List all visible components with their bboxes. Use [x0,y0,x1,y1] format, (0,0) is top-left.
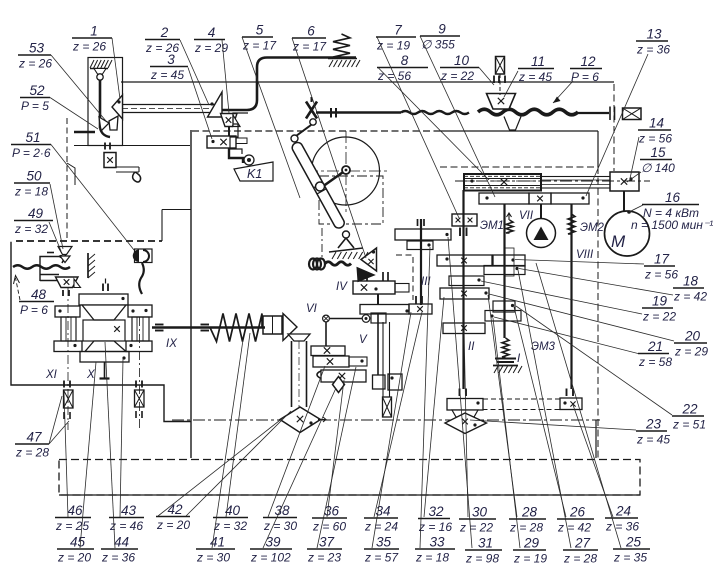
leader 4 [222,40,229,113]
K1 roller [244,155,254,165]
svg-text:30: 30 [472,505,488,520]
leader 52 [50,98,98,130]
shaft V upper [377,314,379,376]
bevel 6 z17 [357,268,375,282]
svg-text:6: 6 [307,24,315,39]
gear IV box [353,281,395,294]
shaft coupling mark [330,108,332,118]
leader 42b [158,417,284,516]
svg-text:49: 49 [28,206,44,221]
label 14 z=56 [638,129,671,131]
svg-text:z = 28: z = 28 [563,552,597,566]
gear bD [484,266,525,275]
svg-text:z = 29: z = 29 [674,345,708,359]
svg-text:47: 47 [26,430,42,445]
bevel 49 pair [58,247,72,255]
svg-text:z = 36: z = 36 [605,520,639,534]
svg-text:23: 23 [645,417,662,432]
gear bH [485,311,521,322]
svg-text:IV: IV [336,281,348,293]
leader 26 [514,307,566,517]
svg-text:18: 18 [683,274,699,289]
leader 29 [493,318,520,548]
svg-text:17: 17 [654,252,670,267]
leader 7 [377,37,459,218]
svg-text:VI: VI [306,303,318,315]
svg-text:z = 30: z = 30 [196,551,230,565]
svg-text:z = 98: z = 98 [465,552,499,566]
svg-text:35: 35 [376,535,392,550]
gear 4 shaft [228,127,230,136]
worm wheel mate outline [504,117,521,131]
leader 16 [629,205,643,212]
label 53 z=26 [18,54,51,56]
svg-text:11: 11 [531,54,545,69]
svg-text:45: 45 [70,535,86,550]
svg-text:z = 56: z = 56 [644,268,678,282]
apron right gearbox [128,305,152,317]
worm coil section [478,109,578,115]
shaft II bottom box [447,399,483,411]
apron top plate [79,294,128,305]
svg-text:z = 36: z = 36 [101,551,135,565]
leader 2 [180,40,209,105]
belt housing hidden line [613,84,615,171]
shaft I coupling bars [495,358,516,360]
label 1 z=26 [72,37,112,39]
shaft V crossbox [383,397,392,417]
cylinder lower pin [343,231,350,238]
svg-text:z = 22: z = 22 [459,521,493,535]
bevel 48 [56,277,79,288]
svg-text:II: II [468,341,475,353]
leader 28 [488,295,517,517]
svg-text:z = 22: z = 22 [440,69,474,83]
gear V1 box [311,346,345,356]
cylinder capsule [290,141,346,230]
clutch EM1 box [452,214,477,226]
svg-text:33: 33 [429,535,445,550]
VI down shaft [325,322,327,346]
gear 4 bevel [221,114,238,127]
label 13 z=36 [636,40,668,42]
leader 46 [64,392,68,517]
label 40 z=32 [213,517,248,519]
svg-text:27: 27 [574,536,591,551]
leader 34 [374,312,422,517]
apron left lower box [54,341,82,352]
shaft I line [503,204,505,338]
svg-text:z = 51: z = 51 [672,418,706,432]
K1 flag [234,162,273,181]
svg-text:z = 32: z = 32 [213,519,247,533]
svg-text:44: 44 [114,535,129,550]
label 38 z=30 [263,517,297,519]
label 41 z=30 [196,548,235,550]
svg-text:24: 24 [615,504,631,519]
gear V5 box [388,374,402,390]
apron upper funnel [82,305,126,320]
label 12 P=6 [570,68,602,70]
flexible shaft wavy [401,111,469,114]
leader 49 [49,222,61,251]
spring support hatch [328,58,357,60]
torsion coil [309,259,317,270]
svg-text:z = 42: z = 42 [673,290,707,304]
svg-text:z = 16: z = 16 [418,520,452,534]
svg-text:8: 8 [401,53,409,68]
feedbox step vertical [161,210,163,242]
svg-text:z = 28: z = 28 [15,446,49,460]
shaft IX [152,326,265,328]
gear V4 box [373,375,386,389]
label 36 z=60 [312,517,347,519]
label 33 z=18 [415,548,455,550]
svg-text:29: 29 [523,536,540,551]
svg-text:21: 21 [647,339,663,354]
gear row left [479,193,529,204]
svg-text:5: 5 [256,23,264,38]
svg-text:n = 1500 мин⁻¹: n = 1500 мин⁻¹ [631,218,713,232]
svg-text:51: 51 [25,130,40,145]
svg-text:z = 18: z = 18 [14,185,48,199]
leader 9 [420,36,495,197]
label 44 z=36 [101,548,138,550]
svg-text:III: III [421,276,431,288]
svg-text:z = 35: z = 35 [613,551,647,565]
svg-text:VII: VII [519,210,534,222]
disc horizontal axis [306,170,387,172]
label 39 z=102 [250,548,292,550]
label 26 z=42 [557,518,594,520]
gear b2 [493,255,525,266]
dashed coupling band [483,399,560,410]
leader 24 [573,405,613,517]
svg-text:z = 17: z = 17 [242,39,277,53]
label 43 z=46 [109,517,144,519]
label 19 z=22 [642,307,673,309]
selector rod [99,80,102,128]
worm wheel 11 [487,94,516,110]
svg-text:K1: K1 [247,167,262,181]
left col ticks [63,381,65,388]
drive shaft [316,111,401,114]
apron right lower box [126,341,152,352]
leader 10 [479,68,494,86]
gearbox right wall solid [597,131,599,167]
label 49 z=32 [14,220,53,222]
label 5 z=17 [242,36,273,38]
crank slider hidden box [319,176,383,224]
link bar [296,125,311,136]
leader 3 [188,68,212,140]
svg-text:z = 28: z = 28 [509,521,543,535]
oil drop [133,172,141,182]
label 16 motor data [642,204,699,206]
leader 13 [586,54,648,196]
bevel 5 z17 [361,248,377,271]
leader 15 [627,172,641,182]
dashed enclosure corner [396,255,413,300]
selector gear box [104,153,116,168]
label 37 z=23 [307,548,342,550]
gear b1 z [437,255,492,266]
leader 1 [112,38,120,99]
shaft VIII bottom coupling [566,389,568,397]
leader 35 [372,312,411,548]
svg-text:z = 42: z = 42 [557,521,591,535]
svg-text:20: 20 [684,329,701,344]
leader 38 [268,366,325,517]
lead screw [122,104,215,106]
apron worm housing [83,320,125,341]
svg-text:VIII: VIII [576,249,594,261]
base plate [59,460,640,496]
gear III top box [395,229,451,240]
leader 8 [378,68,489,181]
svg-text:53: 53 [29,41,45,56]
shaft IV lower stub [377,294,379,305]
worm end coupling [609,107,611,121]
svg-text:z = 26: z = 26 [18,57,52,71]
leader 39 [263,388,336,548]
leader 47b [49,421,69,444]
shaft X2 axis [139,317,141,430]
svg-text:z = 45: z = 45 [518,70,552,84]
gear bF [440,288,489,299]
headstock bottom line [74,145,190,147]
leader 22 [516,306,672,415]
VI link line [330,318,362,320]
apron top ticks [102,284,104,292]
gear V3 box [321,370,366,382]
big gear block z56 [464,174,541,191]
shaft VIII line [570,204,572,389]
svg-text:52: 52 [29,83,45,98]
svg-text:z = 56: z = 56 [638,132,672,146]
bearing box 13 [623,108,642,120]
svg-text:9: 9 [438,22,446,37]
feed shaft bend outline [67,163,75,185]
label 17 z=56 [644,265,675,267]
cylinder anchor [338,238,354,248]
svg-text:z = 26: z = 26 [72,40,106,54]
motor stem [623,191,625,212]
drum encoder [135,249,153,263]
leader 53 [51,55,106,121]
gear cluster hidden top [440,166,598,168]
motor circle [605,211,650,256]
svg-text:z = 30: z = 30 [263,519,297,533]
shaft 48 coupling [62,290,64,296]
gear bG [493,301,515,312]
apron left rails [61,317,76,341]
shaft IV vertical [366,272,368,281]
gear 10 hidden shaft [499,74,501,95]
headstock housing box [88,58,123,146]
clutch box IX [263,316,282,334]
leader 5 [242,37,300,198]
leader 33 [420,247,430,548]
wall with hatch [87,253,89,278]
selector step bar [116,166,139,168]
shaft II coupling [459,228,461,237]
left lower ticks [63,412,65,419]
gearbox top solid line [440,130,598,132]
claw tick [47,252,54,254]
label 32 z=16 [418,518,450,520]
kite arrow [318,417,326,422]
shaft II kite bevel [445,413,487,434]
gear 3 box [207,136,236,148]
leader 25 [536,263,621,548]
feed rod arrow [16,278,21,300]
bevel IX right [283,314,297,341]
svg-text:z = 32: z = 32 [14,222,48,236]
label 51 P=2.6 [11,144,51,146]
gear bI [443,323,485,334]
leader 47a [49,396,62,444]
svg-text:z = 45: z = 45 [150,68,184,82]
svg-text:16: 16 [665,190,681,205]
label 22 z=51 [672,415,704,417]
svg-text:z = 23: z = 23 [307,551,341,565]
label 21 z=58 [638,353,669,355]
label 48 P=6 [19,301,54,303]
leader 42 [186,411,291,516]
K1 pipe [229,148,243,163]
right col ticks [135,381,137,388]
rocker hidden axis [321,228,323,258]
VI side box [371,313,386,323]
svg-text:42: 42 [167,502,183,517]
svg-text:25: 25 [625,535,642,550]
column bottom right edge [595,420,597,458]
leader 21 [494,317,638,354]
label 24 z=36 [605,517,638,519]
apron left gearbox [55,306,80,317]
cam staircase [230,113,248,154]
svg-text:z = 20: z = 20 [57,551,91,565]
leader 31 [448,237,472,548]
svg-text:z = 17: z = 17 [292,40,327,54]
pump circle [527,219,556,248]
leader 17 [515,260,644,265]
gear III bottom left box [360,305,409,315]
half nut bracket [40,257,65,282]
label 31 z=98 [465,549,502,551]
svg-text:z = 36: z = 36 [636,43,670,57]
leader 44 [105,342,115,548]
svg-text:z = 20: z = 20 [156,518,190,532]
svg-text:50: 50 [26,169,42,184]
svg-text:32: 32 [428,504,444,519]
label 6 z=17 [292,37,326,39]
svg-text:IX: IX [166,338,178,350]
link pin circle [310,119,316,125]
label 23 z=45 [636,430,667,432]
worm shaft right [578,112,609,114]
headstock ceiling hatch [90,68,108,70]
feedbox hidden top line [16,240,162,242]
shaft V lines [382,322,384,397]
gear V2 ext [349,357,367,366]
upper pulley axis [455,180,650,182]
spindle stub thick [74,131,95,134]
selector coupling ticks [104,143,106,150]
label 11 z=45 [518,68,554,70]
svg-text:z = 56: z = 56 [377,69,411,83]
shaft VIII bottom box [560,398,582,410]
column left wall [190,130,192,458]
label 4 z=29 [194,39,225,41]
svg-text:13: 13 [646,27,662,42]
wide vertical shaft [291,341,293,407]
svg-text:ЭМ1: ЭМ1 [480,220,504,232]
leader 6 [292,38,366,258]
label 2 z=26 [145,39,180,41]
shaft III line [420,219,422,305]
leader 11 [504,71,518,97]
svg-text:P = 2·6: P = 2·6 [12,146,51,160]
svg-text:3: 3 [167,52,175,67]
leader 14 [630,137,639,179]
lower centre axis [172,419,600,421]
svg-text:z = 58: z = 58 [638,355,672,369]
shaft I spring [502,338,509,357]
gear III second box [407,241,433,250]
right crossbox [135,390,145,407]
gear V2 box [313,356,349,367]
shaft II line [462,190,464,389]
drum wavy down [139,263,144,294]
label 25 z=35 [613,548,650,550]
svg-text:∅ 140: ∅ 140 [641,161,675,175]
feed rod wavy left [13,265,70,269]
svg-text:46: 46 [67,503,83,518]
svg-text:1: 1 [90,24,98,39]
svg-text:26: 26 [569,505,586,520]
leader 19 [481,281,642,314]
label 20 z=29 [674,342,707,344]
svg-text:P = 5: P = 5 [21,99,49,113]
gear 10 shaft box [496,57,505,75]
svg-text:P = 6: P = 6 [571,70,599,84]
feedbox step horizontal [162,209,191,211]
svg-text:P = 6: P = 6 [20,303,48,317]
label 9 d355 [420,35,460,37]
svg-text:4: 4 [208,25,216,40]
universal joint [306,102,317,119]
half nut claw [60,248,65,263]
label 45 z=20 [57,548,94,550]
pulley d140 [610,172,639,191]
shaft II bottom coupling [459,389,461,397]
label 52 P=5 [20,97,50,99]
svg-text:2: 2 [160,25,169,40]
svg-text:31: 31 [478,536,493,551]
label 34 z=24 [364,517,398,519]
label 18 z=42 [673,287,704,289]
gearbox right wall hidden [597,167,599,458]
crank disc [312,137,380,205]
svg-text:z = 45: z = 45 [636,433,670,447]
label 47 z=28 [15,443,49,445]
disc vertical axis [345,131,347,212]
bevel wide shaft top [288,334,310,341]
label 29 z=19 [513,549,546,551]
crank pin [316,182,325,191]
